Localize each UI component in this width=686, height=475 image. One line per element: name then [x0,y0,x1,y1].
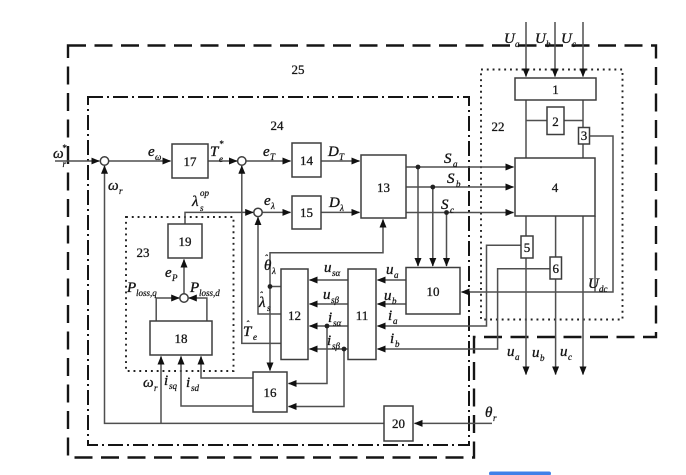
svg-text:20: 20 [392,416,405,431]
svg-text:16: 16 [264,385,278,400]
svg-text:ω: ω [155,152,161,162]
svg-text:u: u [324,260,332,276]
node S_c junction [444,210,449,215]
block 19 optimal flux calc [168,224,202,258]
block 18 loss model [150,321,212,355]
block 16 park transform [253,372,287,412]
svg-text:e: e [253,332,257,342]
svg-text:ω: ω [143,375,154,391]
svg-text:op: op [200,188,210,198]
wire U_c input [582,22,584,77]
svg-text:loss,q: loss,q [136,288,157,298]
svg-text:D: D [328,195,340,211]
wire block1 to block4 left phase [525,100,527,158]
wire S_a tap down to block10 [417,167,419,266]
wire omega* input [55,160,99,162]
wire u_s_alpha block11 to block12 [310,279,349,281]
svg-text:4: 4 [552,180,559,195]
svg-text:s: s [267,303,271,313]
node sum circle P (loss sum) [180,294,188,302]
node S_a junction [416,165,421,170]
svg-text:22: 22 [492,119,505,134]
wire phase c down [582,216,584,375]
svg-text:sq: sq [169,381,178,391]
block 12 estimator [281,269,308,360]
wire i_s_beta [310,348,349,350]
svg-text:*: * [62,143,67,153]
wire u_b block10 to block11 [378,303,407,305]
node i_s_alpha junction [325,324,330,329]
svg-text:dc: dc [599,284,608,294]
node theta_hat junction [268,284,273,289]
svg-text:c: c [450,205,454,215]
block 1 rectifier [515,78,596,100]
boundary box 25 (dashed) [68,46,656,458]
wire e_P circle to block19 [183,260,185,294]
wire theta_hat stub from block12 [270,286,281,288]
wire S_c tap down to block10 [446,213,448,267]
boundary box 23 (dotted) [126,217,234,371]
svg-text:a: a [515,39,520,49]
svg-text:i: i [390,331,394,347]
node S_b junction [430,185,435,190]
wire block17 to c2 [208,160,237,162]
block 3 [579,128,590,145]
wire U_dc from block3 to block10 [462,136,614,292]
wire c1 to block17 [109,160,171,162]
wire S_b tap down to block10 [432,187,434,266]
svg-text:λ: λ [271,266,276,276]
svg-text:a: a [394,270,399,280]
svg-text:i: i [164,373,168,389]
svg-text:23: 23 [137,245,150,260]
BLOCK NUMBER LABELS [137,62,588,431]
svg-text:sα: sα [332,268,341,278]
svg-text:a: a [515,352,520,362]
svg-text:b: b [392,296,397,306]
wire theta_hat down to block16 [269,287,271,371]
wire u_a block10 to block11 [378,279,407,281]
svg-text:S: S [447,171,455,187]
svg-text:u: u [532,345,540,361]
svg-text:P: P [189,280,199,296]
svg-text:sα: sα [333,318,342,328]
wire block14 to block13 (D_T) [321,160,360,162]
svg-text:u: u [560,344,568,360]
wire theta_hat to block13 [270,220,383,287]
svg-text:S: S [444,151,452,167]
svg-text:15: 15 [300,205,313,220]
svg-text:ω: ω [108,178,119,194]
wire i_s_alpha tap to block16 [289,326,328,384]
wire i_b from block6 to block11 [378,269,551,349]
svg-text:5: 5 [524,240,531,255]
svg-text:c: c [572,39,576,49]
svg-text:u: u [386,262,394,278]
svg-text:e: e [264,193,271,209]
blue bar bottom [489,472,551,475]
BLOCKS [150,78,596,441]
wire theta_r input to block20 [415,422,493,424]
svg-text:sβ: sβ [331,295,340,305]
svg-text:25: 25 [292,62,305,77]
wire omega_r feedback from block20 to c1 [105,166,385,424]
svg-text:1: 1 [552,82,559,97]
svg-text:e: e [165,265,172,281]
boundary box 22 (dotted) [481,70,623,320]
block 17 speed controller [172,144,208,178]
block 5 current sensor a [521,236,533,258]
svg-text:3: 3 [581,128,588,143]
SUM CIRCLES [100,157,262,302]
node sum circle 1 (speed error) [100,157,108,165]
block 10 signal acquisition [406,268,460,315]
svg-text:11: 11 [356,308,369,323]
node i_s_beta junction [342,347,347,352]
wire i_a from block5 to block11 [378,245,522,326]
wire u_s_beta [310,303,349,305]
svg-text:λ: λ [339,203,344,213]
wire U_a input [525,22,527,77]
wire c2 to block14 [246,160,290,162]
wire T_hat feedback to c2 [242,166,281,344]
svg-text:S: S [441,197,449,213]
svg-text:b: b [456,179,461,189]
wire lambda_op from block19 to c3 [185,212,253,224]
boundary box 24 (dash-dot) [88,97,469,445]
svg-text:sβ: sβ [332,341,341,351]
block 13 switching table [361,155,406,218]
wire i_sd block16 to block18 [201,357,253,379]
svg-text:λ: λ [270,201,275,211]
block 6 current sensor b [550,257,562,279]
svg-text:P: P [171,273,178,283]
svg-text:10: 10 [427,284,440,299]
wire block4 corner to U_dc line [594,216,596,292]
svg-text:6: 6 [552,261,559,276]
node sum circle 2 (torque error) [238,157,246,165]
svg-text:P: P [126,280,136,296]
svg-text:r: r [63,159,67,169]
wire lambda_hat feedback to c3 [258,217,281,314]
svg-text:i: i [328,310,332,326]
svg-text:19: 19 [179,234,192,249]
svg-text:e: e [148,144,155,160]
wire P_loss_d into sum circle [189,298,207,321]
wire i_s_beta tap to block16 [289,349,345,407]
wire block1 to block3 [582,100,584,128]
wire S_c [406,212,514,214]
svg-text:a: a [453,159,458,169]
svg-text:sd: sd [191,383,200,393]
svg-text:i: i [327,333,331,349]
svg-text:a: a [393,316,398,326]
wire S_b [406,186,514,188]
svg-text:u: u [507,344,515,360]
svg-text:18: 18 [175,331,188,346]
wire c3 to block15 (e_lambda) [262,211,290,213]
svg-text:*: * [219,139,224,149]
SIGNAL LABELS [53,31,608,423]
svg-text:r: r [119,186,123,196]
svg-text:D: D [327,144,339,160]
block 2 [547,107,564,135]
svg-text:θ: θ [485,405,493,421]
wire block15 to block13 (D_lambda) [321,211,360,213]
svg-text:b: b [395,339,400,349]
wire omega_r riser into block18 [160,357,162,424]
wire P_loss_q into sum circle [156,298,179,321]
wire i_s_alpha [310,325,349,327]
wire phase a down through block5 [525,216,527,375]
svg-text:u: u [323,287,331,303]
svg-text:r: r [154,383,158,393]
block 14 torque hysteresis [292,143,321,177]
node sum circle 3 (flux error) [254,208,262,216]
svg-text:i: i [388,308,392,324]
svg-text:12: 12 [288,308,301,323]
wire phase b down through block6 [555,216,557,375]
svg-text:14: 14 [300,153,314,168]
svg-text:loss,d: loss,d [199,288,220,298]
svg-text:e: e [219,154,223,164]
svg-text:b: b [540,353,545,363]
wire S_a [406,166,514,168]
svg-text:λ: λ [191,194,199,210]
wire block2 left link [526,120,547,122]
block 11 3/2 transform [348,269,376,360]
svg-text:r: r [493,413,497,423]
svg-text:u: u [384,288,392,304]
svg-text:24: 24 [271,118,285,133]
wire block2 right link [564,120,583,122]
svg-text:2: 2 [552,114,559,129]
svg-text:b: b [546,39,551,49]
block 15 flux hysteresis [292,196,321,229]
svg-text:e: e [263,144,270,160]
wire i_sq block16 to block18 [181,357,253,407]
svg-text:s: s [200,203,204,213]
block 20 speed calc [384,406,413,441]
block 4 inverter/motor [515,158,595,216]
wire block3 to block4 [582,144,584,158]
wire U_b input [554,22,556,77]
svg-text:c: c [568,352,572,362]
svg-text:17: 17 [184,154,198,169]
svg-text:i: i [186,375,190,391]
svg-text:13: 13 [377,180,390,195]
